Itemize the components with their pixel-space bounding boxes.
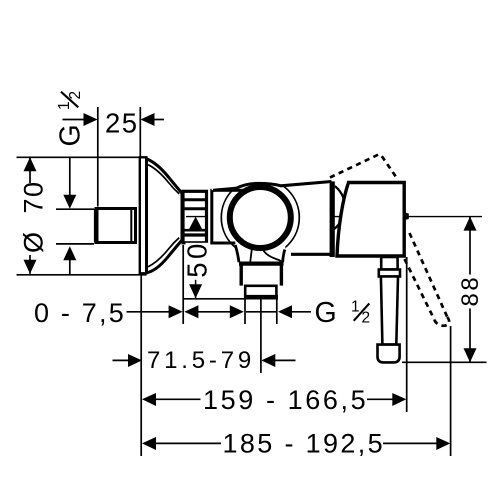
svg-text:71.5-79: 71.5-79 bbox=[147, 347, 255, 374]
svg-text:1: 1 bbox=[56, 101, 73, 110]
svg-text:2: 2 bbox=[67, 91, 84, 100]
svg-text:2: 2 bbox=[362, 310, 371, 327]
svg-text:25: 25 bbox=[105, 108, 139, 139]
svg-text:159 - 166,5: 159 - 166,5 bbox=[203, 385, 368, 415]
svg-text:50: 50 bbox=[182, 240, 213, 278]
svg-text:88: 88 bbox=[457, 275, 484, 307]
svg-text:185 - 192,5: 185 - 192,5 bbox=[223, 429, 385, 459]
svg-text:1: 1 bbox=[351, 299, 360, 316]
svg-text:Ø 70: Ø 70 bbox=[18, 180, 48, 253]
svg-text:0 - 7,5: 0 - 7,5 bbox=[34, 298, 126, 328]
svg-text:G: G bbox=[315, 297, 337, 329]
svg-text:G: G bbox=[55, 124, 87, 146]
